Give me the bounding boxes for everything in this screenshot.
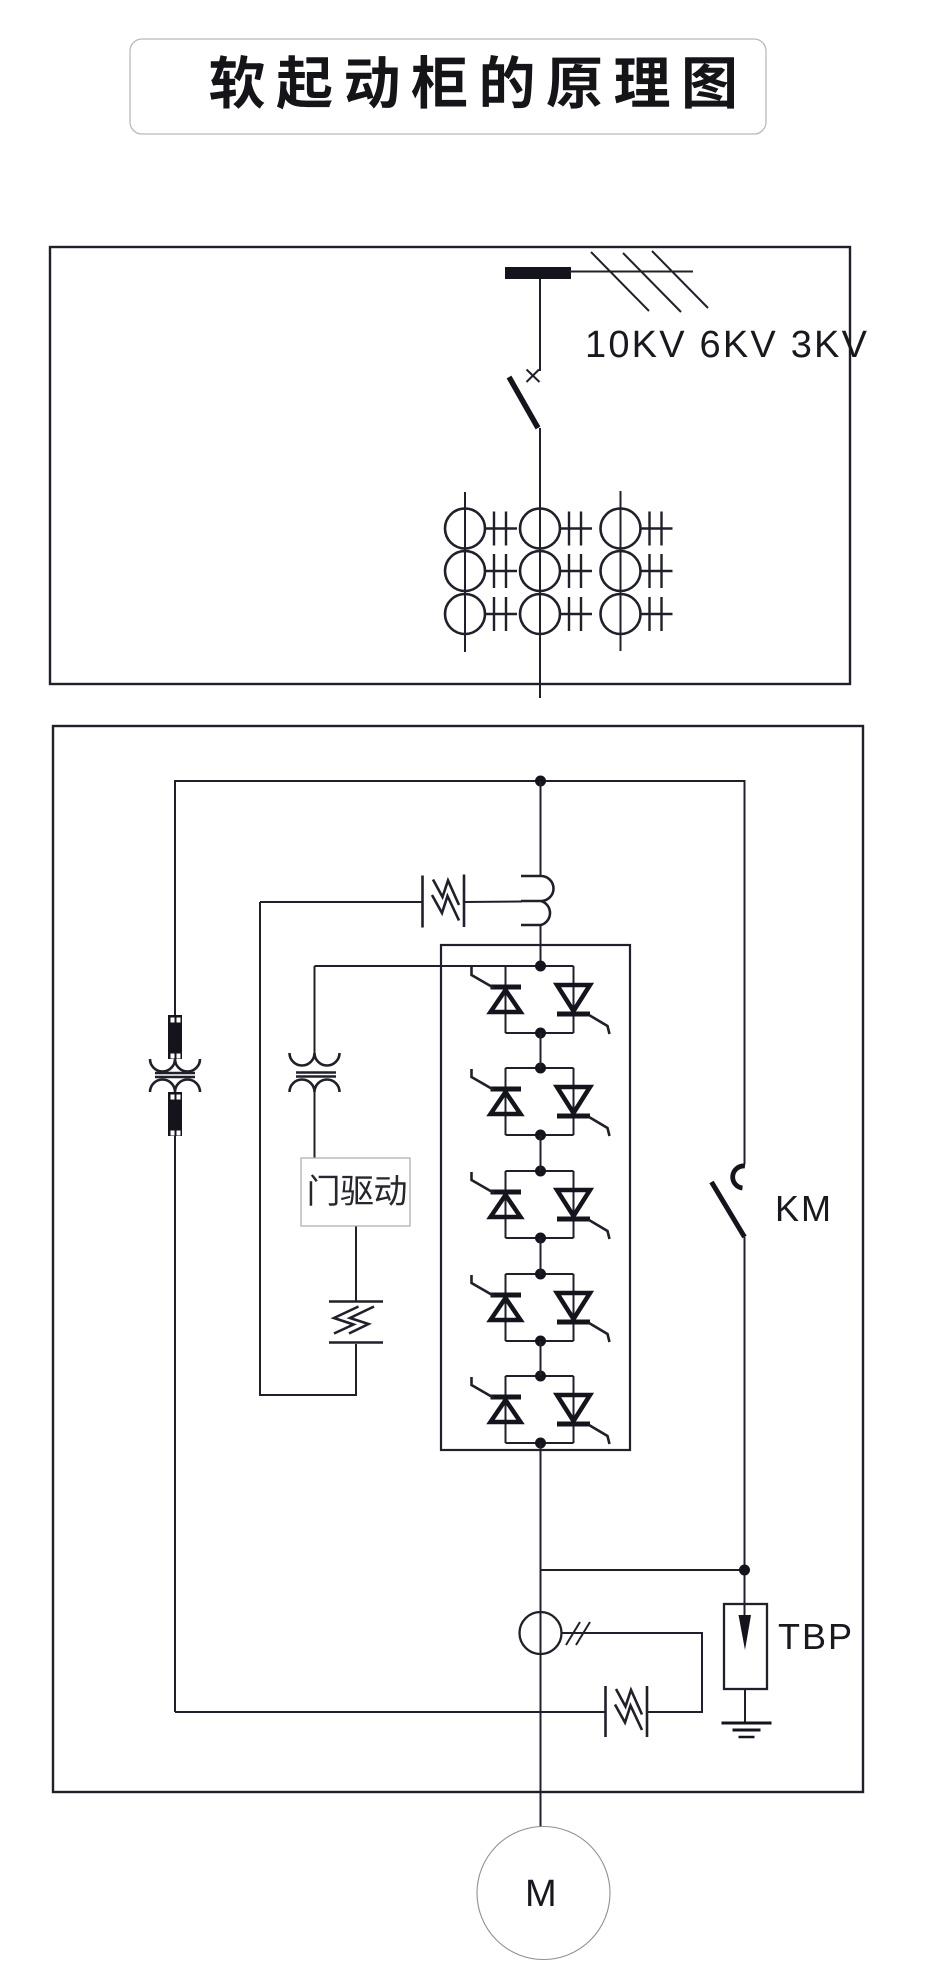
transformer bank column lines: [465, 491, 621, 652]
wire busbar to switch: [539, 279, 541, 371]
motor M: [477, 1827, 610, 1960]
svg-text:M: M: [525, 1873, 557, 1915]
thyristor pair V1: [472, 961, 610, 1039]
gate drive box 门驱动: [301, 1158, 410, 1226]
thyristor pair V2: [472, 1063, 610, 1141]
thyristor pair V3: [472, 1166, 610, 1244]
top distribution wire: [175, 781, 745, 1164]
gate wire to thyristors: [315, 965, 541, 967]
wire snubber loop: [260, 902, 356, 1395]
thyristor pair V4: [472, 1269, 610, 1347]
surge protector TBP: [724, 1604, 767, 1689]
arrester FV2: [329, 1302, 383, 1343]
node bypass junction: [739, 1565, 750, 1576]
wire snubber horizontal: [260, 901, 522, 904]
main line between pairs: [540, 1033, 542, 1376]
voltage label 10KV 6KV 3KV: [585, 324, 869, 366]
wire main to reactor: [540, 781, 542, 876]
transformer bank windings 3x3: [445, 509, 641, 635]
ground: [722, 1723, 772, 1737]
wire reactor to stack: [540, 925, 542, 966]
busbar: [505, 267, 571, 279]
arrester FV3: [606, 1686, 648, 1737]
wire TBP to ground: [744, 1689, 746, 1722]
arrester FV1: [423, 875, 465, 928]
wire stack to motor: [540, 1443, 542, 1827]
wire left branch bottom: [175, 1711, 605, 1713]
soft starter cabinet box: [53, 726, 863, 1792]
saturable reactor on main line: [521, 876, 554, 925]
label TBP: [778, 1616, 854, 1657]
thyristor pair V5: [472, 1371, 610, 1449]
gate pulse transformer T2: [290, 966, 340, 1158]
node top junction: [535, 776, 546, 787]
thyristor stack box: [441, 945, 630, 1450]
bypass junction wire: [541, 1569, 745, 1571]
contactor KM: [712, 1166, 746, 1604]
wire arrester to gate drive box: [355, 1226, 357, 1301]
wire switch to transformer bank: [539, 428, 541, 698]
title box 软起动柜的原理图: [130, 39, 766, 134]
incoming cabinet box: [50, 247, 850, 684]
svg-text:TBP: TBP: [778, 1616, 854, 1657]
disconnect switch QS: [509, 370, 540, 429]
wire CT loop: [562, 1633, 703, 1712]
svg-text:10KV 6KV 3KV: 10KV 6KV 3KV: [585, 324, 869, 366]
incoming feeder line with hatches: [569, 251, 708, 312]
voltage transformer T1: [150, 781, 200, 1712]
current transformer CT: [520, 1612, 591, 1654]
transformer tap symbols: [485, 512, 673, 632]
label KM: [775, 1188, 833, 1229]
svg-text:KM: KM: [775, 1188, 833, 1229]
